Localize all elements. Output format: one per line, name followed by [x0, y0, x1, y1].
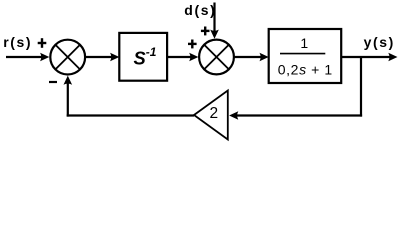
plus sign at summing junction 2 top input	[201, 27, 210, 36]
svg-text:1: 1	[300, 35, 308, 51]
svg-text:-1: -1	[146, 45, 157, 59]
wire branch from output down	[360, 56, 362, 117]
svg-text:2: 2	[209, 105, 218, 122]
wire input r(s) to summing junction 1	[6, 56, 42, 58]
plus sign at summing junction 1 input	[38, 38, 47, 48]
wire d(s) down into summing junction 2	[213, 3, 215, 32]
wire feedback up into junction 1	[67, 84, 69, 117]
svg-text:r(s): r(s)	[3, 34, 32, 50]
wire junction 1 to block S^-1	[85, 56, 112, 58]
wire gain triangle output to left	[67, 114, 194, 116]
summing junction 2 (circle with X)	[199, 40, 234, 75]
svg-text:0,2s + 1: 0,2s + 1	[278, 61, 333, 77]
minus sign at summing junction 1 feedback input	[49, 81, 57, 83]
svg-text:S: S	[134, 48, 146, 69]
svg-text:d(s): d(s)	[184, 2, 216, 18]
block 1/(0.2s+1)	[269, 29, 342, 83]
summing junction 1 (circle with X)	[50, 40, 85, 75]
svg-text:y(s): y(s)	[364, 34, 395, 50]
plus sign at summing junction 2 horizontal input	[188, 40, 197, 49]
wire feedback right segment into gain triangle	[237, 114, 362, 116]
wire block S^-1 to summing junction 2	[167, 56, 191, 58]
gain block triangle "2"	[194, 91, 228, 140]
block S^-1	[119, 33, 167, 81]
wire plant block to output y(s)	[341, 56, 389, 58]
wire junction 2 to plant block	[234, 56, 262, 58]
